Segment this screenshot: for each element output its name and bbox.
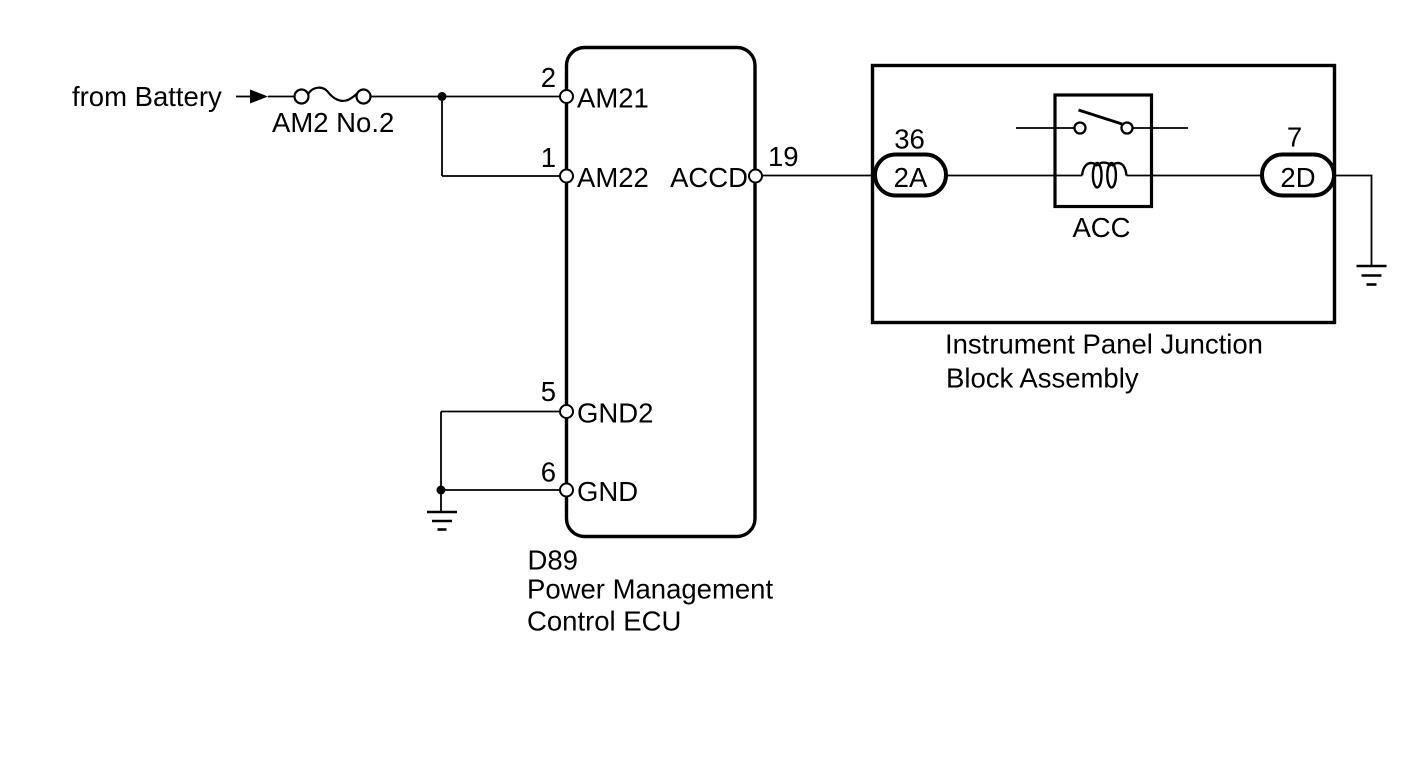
pin 2 terminal AM21 <box>560 90 573 103</box>
relay switch wire right <box>1133 127 1189 129</box>
relay coil arch 2 <box>1097 163 1111 166</box>
svg-text:6: 6 <box>541 457 556 488</box>
svg-text:7: 7 <box>1287 122 1302 153</box>
svg-text:AM21: AM21 <box>577 83 649 114</box>
relay switch wire left <box>1016 127 1075 129</box>
svg-text:GND: GND <box>577 476 638 507</box>
Instrument Panel Junction Block box <box>873 66 1335 323</box>
svg-text:Instrument Panel Junction: Instrument Panel Junction <box>945 329 1263 360</box>
arrow battery direction <box>250 90 268 104</box>
wire branch down from junction A <box>441 97 443 177</box>
wire 2A to relay <box>946 175 1082 177</box>
svg-text:AM22: AM22 <box>577 162 649 193</box>
relay coil arch 3 <box>1112 163 1127 176</box>
wire junction B to ground <box>440 490 442 512</box>
ground symbol right <box>1357 266 1387 285</box>
wire fuse to junction to pin 2 <box>371 96 561 98</box>
svg-text:2D: 2D <box>1280 162 1315 193</box>
relay coil petal 1 <box>1093 163 1102 187</box>
wire ACCD to connector 2A <box>762 175 876 177</box>
relay coil petal 2 <box>1107 163 1116 187</box>
pin 6 terminal GND <box>560 484 573 497</box>
fuse AM2 No.2 element <box>309 88 357 101</box>
junction dot A <box>438 92 447 101</box>
relay switch contact right <box>1122 123 1133 134</box>
svg-text:Control ECU: Control ECU <box>527 606 681 637</box>
pin 5 terminal GND2 <box>560 405 573 418</box>
svg-text:2A: 2A <box>894 162 928 193</box>
fuse AM2 No.2 right terminal <box>357 90 371 104</box>
svg-text:D89: D89 <box>528 545 578 576</box>
ECU D89 connector box <box>567 48 756 537</box>
connector 2D oval <box>1262 155 1334 196</box>
svg-text:ACC: ACC <box>1072 212 1130 243</box>
pin 19 terminal ACCD <box>749 170 762 183</box>
svg-text:Power Management: Power Management <box>527 574 773 605</box>
relay switch blade <box>1079 110 1123 124</box>
svg-text:from Battery: from Battery <box>72 81 222 112</box>
svg-text:36: 36 <box>894 124 925 155</box>
svg-text:5: 5 <box>541 376 556 407</box>
pin 1 terminal AM22 <box>560 170 573 183</box>
relay coil arch 1 <box>1082 163 1097 176</box>
svg-text:ACCD: ACCD <box>670 162 748 193</box>
wire coil to 2D <box>1127 175 1264 177</box>
relay ACC box <box>1055 95 1152 207</box>
wire battery feed stub <box>236 96 252 98</box>
svg-text:19: 19 <box>768 141 799 172</box>
relay switch contact left <box>1075 123 1086 134</box>
svg-text:1: 1 <box>541 142 556 173</box>
svg-text:AM2 No.2: AM2 No.2 <box>272 107 394 138</box>
wire GND2 to left <box>441 411 561 413</box>
wire GND to left <box>441 489 561 491</box>
wire arrow to fuse <box>268 96 294 98</box>
fuse AM2 No.2 left terminal <box>295 90 309 104</box>
connector 2A oval <box>875 155 946 196</box>
junction dot B <box>437 486 446 495</box>
svg-text:GND2: GND2 <box>577 398 653 429</box>
wire branch to pin 1 <box>442 175 561 177</box>
wire GND2 branch down <box>440 412 442 491</box>
ground symbol left <box>427 512 457 530</box>
wire 2D to ground drop <box>1334 176 1372 267</box>
svg-text:Block Assembly: Block Assembly <box>946 363 1139 394</box>
svg-text:2: 2 <box>541 62 556 93</box>
